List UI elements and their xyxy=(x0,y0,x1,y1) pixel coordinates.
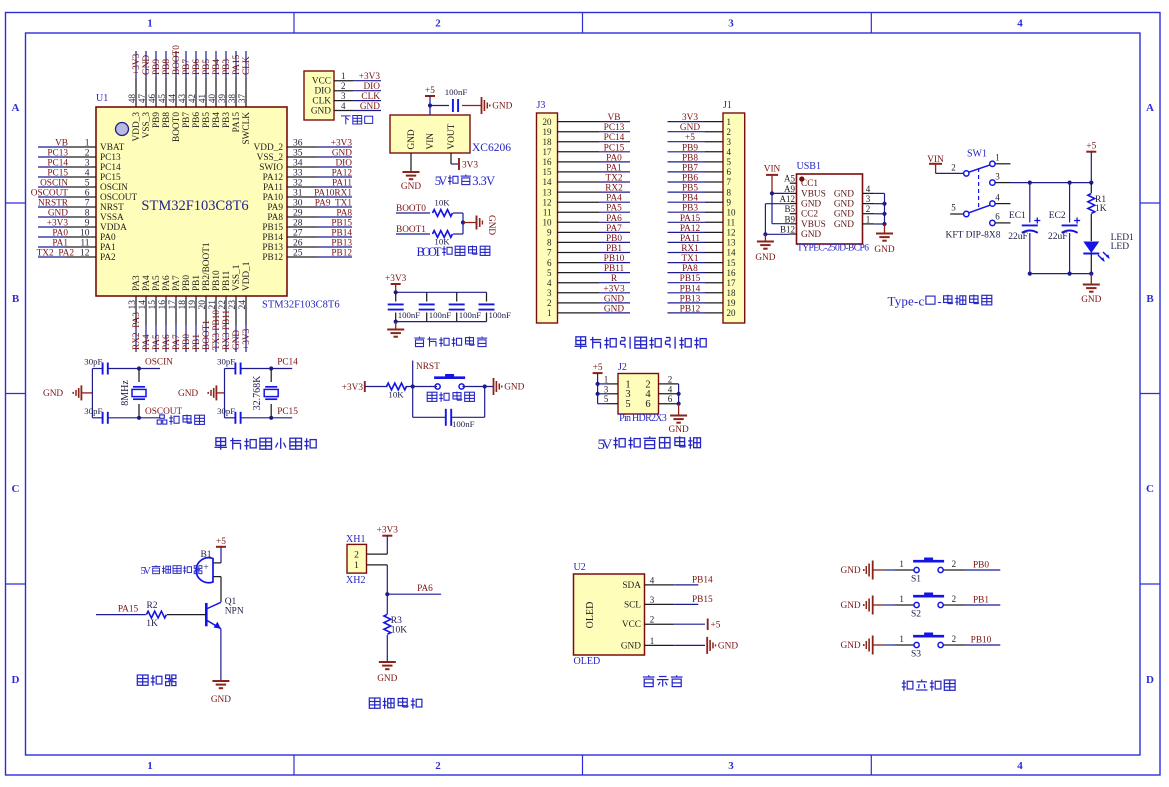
svg-text:DIO: DIO xyxy=(314,87,331,97)
svg-text:U1: U1 xyxy=(96,93,108,104)
svg-text:34: 34 xyxy=(293,159,303,169)
svg-text:GND: GND xyxy=(43,389,63,399)
svg-text:10K: 10K xyxy=(388,390,404,400)
svg-text:PA15: PA15 xyxy=(680,214,701,224)
svg-text:2: 2 xyxy=(341,81,346,91)
svg-text:VBUS: VBUS xyxy=(801,189,826,199)
svg-text:PA9 TX1: PA9 TX1 xyxy=(315,199,353,209)
svg-text:5: 5 xyxy=(604,394,609,404)
svg-text:3: 3 xyxy=(728,760,734,772)
svg-text:VIN: VIN xyxy=(426,133,436,150)
svg-text:PB4: PB4 xyxy=(212,112,222,128)
svg-text:2: 2 xyxy=(650,615,655,625)
svg-text:GND: GND xyxy=(377,674,397,684)
svg-text:30pF: 30pF xyxy=(84,406,102,416)
svg-text:PB3: PB3 xyxy=(222,59,232,75)
svg-text:PC15: PC15 xyxy=(100,173,121,183)
svg-text:PB11: PB11 xyxy=(604,264,625,274)
svg-text:GND: GND xyxy=(407,129,417,149)
svg-text:PA0: PA0 xyxy=(606,153,622,163)
svg-text:PB14: PB14 xyxy=(262,233,283,243)
svg-text:PC15: PC15 xyxy=(47,169,68,179)
svg-text:PB5: PB5 xyxy=(202,112,212,128)
svg-text:GND: GND xyxy=(486,215,496,235)
svg-text:1: 1 xyxy=(547,308,552,318)
svg-text:PB1: PB1 xyxy=(606,244,622,254)
svg-text:PB3: PB3 xyxy=(222,112,232,128)
svg-text:PB7: PB7 xyxy=(182,112,192,128)
svg-text:1: 1 xyxy=(899,634,904,644)
svg-text:PA1: PA1 xyxy=(100,243,116,253)
svg-text:GND: GND xyxy=(680,123,700,133)
svg-text:15: 15 xyxy=(727,258,737,268)
svg-text:PB6: PB6 xyxy=(192,59,202,75)
svg-text:PB6: PB6 xyxy=(192,112,202,128)
svg-text:PB9: PB9 xyxy=(682,143,698,153)
svg-text:4: 4 xyxy=(727,147,732,157)
svg-text:PB0: PB0 xyxy=(182,334,192,350)
svg-text:19: 19 xyxy=(188,300,198,310)
svg-text:14: 14 xyxy=(727,248,737,258)
svg-text:PB7: PB7 xyxy=(682,163,698,173)
svg-text:OLED: OLED xyxy=(574,656,601,667)
svg-text:PA6: PA6 xyxy=(417,584,433,594)
svg-text:SW1: SW1 xyxy=(967,149,987,160)
svg-text:PA6: PA6 xyxy=(162,334,172,350)
svg-text:+3V3: +3V3 xyxy=(603,284,625,294)
svg-text:PB9: PB9 xyxy=(152,59,162,75)
svg-text:3: 3 xyxy=(727,137,732,147)
svg-text:17: 17 xyxy=(543,147,553,157)
svg-text:VBUS: VBUS xyxy=(801,220,826,230)
svg-text:PA0: PA0 xyxy=(52,229,68,239)
svg-text:PA1: PA1 xyxy=(606,163,622,173)
svg-text:KFT DIP-8X8: KFT DIP-8X8 xyxy=(946,231,1001,241)
svg-text:PA5: PA5 xyxy=(606,204,622,214)
svg-text:GND: GND xyxy=(211,695,231,705)
svg-text:RX1: RX1 xyxy=(681,244,699,254)
svg-text:BOOT: BOOT xyxy=(417,245,442,259)
svg-text:S1: S1 xyxy=(911,575,921,585)
svg-text:PA10RX1: PA10RX1 xyxy=(314,189,352,199)
svg-text:VB: VB xyxy=(608,113,621,123)
svg-text:25: 25 xyxy=(293,249,303,259)
svg-text:1K: 1K xyxy=(1095,204,1107,214)
svg-text:22uF: 22uF xyxy=(1048,232,1068,242)
svg-text:GND: GND xyxy=(492,102,512,112)
svg-text:VSSA: VSSA xyxy=(100,213,124,223)
svg-text:PA12: PA12 xyxy=(332,169,353,179)
svg-text:100nF: 100nF xyxy=(489,310,512,320)
svg-text:+5: +5 xyxy=(685,133,695,143)
svg-text:D: D xyxy=(1146,674,1154,686)
svg-text:PA1: PA1 xyxy=(52,239,68,249)
svg-text:3: 3 xyxy=(728,18,734,30)
svg-text:VSS_1: VSS_1 xyxy=(232,264,242,291)
svg-text:5: 5 xyxy=(547,268,552,278)
svg-text:PA7: PA7 xyxy=(606,224,622,234)
svg-text:PB14: PB14 xyxy=(331,229,352,239)
svg-text:PB6: PB6 xyxy=(682,174,698,184)
svg-text:PB13: PB13 xyxy=(331,239,352,249)
svg-text:PB0: PB0 xyxy=(182,275,192,291)
svg-text:GND: GND xyxy=(834,200,854,210)
svg-text:33: 33 xyxy=(293,169,303,179)
svg-text:PB10: PB10 xyxy=(212,270,222,291)
svg-text:7: 7 xyxy=(85,199,90,209)
svg-text:12: 12 xyxy=(727,228,736,238)
svg-text:Type-c: Type-c xyxy=(888,294,925,309)
svg-text:CC2: CC2 xyxy=(801,210,818,220)
svg-text:PB12: PB12 xyxy=(262,253,283,263)
svg-text:OSCOUT: OSCOUT xyxy=(31,189,69,199)
svg-text:39: 39 xyxy=(217,94,227,104)
svg-text:9: 9 xyxy=(85,219,90,229)
svg-text:2: 2 xyxy=(354,551,359,561)
svg-text:31: 31 xyxy=(293,189,303,199)
svg-text:SWIO: SWIO xyxy=(259,163,283,173)
svg-text:PB8: PB8 xyxy=(162,59,172,75)
svg-text:DIO: DIO xyxy=(335,159,352,169)
svg-text:29: 29 xyxy=(293,209,303,219)
svg-text:D: D xyxy=(12,674,20,686)
svg-text:VCC: VCC xyxy=(312,77,331,87)
svg-text:PA10: PA10 xyxy=(263,193,284,203)
svg-text:22: 22 xyxy=(218,300,228,310)
svg-text:GND: GND xyxy=(834,220,854,230)
svg-text:41: 41 xyxy=(197,94,207,103)
svg-text:6: 6 xyxy=(85,189,90,199)
svg-text:PA5: PA5 xyxy=(152,334,162,350)
svg-text:+5: +5 xyxy=(216,537,226,547)
svg-text:EC2: EC2 xyxy=(1049,211,1066,221)
svg-text:SCL: SCL xyxy=(624,600,641,610)
svg-text:J3: J3 xyxy=(537,100,546,111)
svg-text:+: + xyxy=(203,562,208,572)
svg-text:2: 2 xyxy=(952,594,957,604)
svg-text:48: 48 xyxy=(127,94,137,104)
svg-text:PA5: PA5 xyxy=(152,275,162,291)
svg-text:VB: VB xyxy=(55,139,68,149)
svg-text:PB14: PB14 xyxy=(680,284,701,294)
svg-text:1: 1 xyxy=(899,594,904,604)
svg-text:PB12: PB12 xyxy=(331,249,352,259)
svg-text:+3V3: +3V3 xyxy=(242,328,252,350)
svg-text:PA7: PA7 xyxy=(172,275,182,291)
svg-text:27: 27 xyxy=(293,229,303,239)
svg-text:1: 1 xyxy=(899,559,904,569)
svg-text:GND: GND xyxy=(604,294,624,304)
svg-text:2: 2 xyxy=(668,374,673,384)
svg-text:5: 5 xyxy=(727,157,732,167)
svg-text:B9: B9 xyxy=(784,214,795,224)
svg-text:5: 5 xyxy=(951,203,956,213)
svg-text:VDD_2: VDD_2 xyxy=(254,143,284,153)
svg-text:PB15: PB15 xyxy=(692,595,713,605)
svg-text:4: 4 xyxy=(866,184,871,194)
svg-text:GND: GND xyxy=(801,230,821,240)
svg-text:PB8: PB8 xyxy=(682,153,698,163)
svg-text:17: 17 xyxy=(168,300,178,310)
svg-text:A5: A5 xyxy=(784,174,795,184)
svg-text:GND: GND xyxy=(311,107,331,117)
svg-text:B12: B12 xyxy=(780,225,795,235)
svg-text:PB15: PB15 xyxy=(680,274,701,284)
svg-text:GND: GND xyxy=(841,601,861,611)
svg-text:42: 42 xyxy=(187,94,197,103)
svg-text:OSCIN: OSCIN xyxy=(40,179,68,189)
svg-text:C: C xyxy=(12,483,20,495)
svg-text:PA6: PA6 xyxy=(162,275,172,291)
svg-text:+5: +5 xyxy=(593,363,603,373)
svg-text:17: 17 xyxy=(727,278,737,288)
svg-text:PA11: PA11 xyxy=(263,183,283,193)
svg-text:10: 10 xyxy=(727,207,737,217)
svg-text:10K: 10K xyxy=(391,626,408,636)
svg-text:VDD_1: VDD_1 xyxy=(242,261,252,291)
svg-text:PA4: PA4 xyxy=(142,334,152,350)
svg-text:100nF: 100nF xyxy=(445,87,468,97)
svg-text:36: 36 xyxy=(293,139,303,149)
svg-text:B: B xyxy=(1146,293,1154,305)
svg-text:SDA: SDA xyxy=(622,581,641,591)
svg-text:TX2: TX2 xyxy=(605,174,622,184)
svg-text:PA4: PA4 xyxy=(606,194,622,204)
svg-text:PA12: PA12 xyxy=(263,173,284,183)
svg-text:2: 2 xyxy=(727,127,732,137)
svg-text:2: 2 xyxy=(547,298,552,308)
svg-text:BOOT1: BOOT1 xyxy=(202,320,212,350)
svg-text:PB2/BOOT1: PB2/BOOT1 xyxy=(202,242,212,291)
svg-text:PB0: PB0 xyxy=(606,234,622,244)
svg-text:1: 1 xyxy=(147,18,153,30)
svg-text:U2: U2 xyxy=(574,562,586,573)
svg-text:3: 3 xyxy=(604,384,609,394)
svg-text:PA6: PA6 xyxy=(606,214,622,224)
svg-text:PB1: PB1 xyxy=(973,596,989,606)
svg-text:22uF: 22uF xyxy=(1008,232,1028,242)
svg-text:30pF: 30pF xyxy=(84,357,102,367)
svg-text:9: 9 xyxy=(727,197,732,207)
svg-text:PB15: PB15 xyxy=(262,223,283,233)
svg-text:GND: GND xyxy=(874,245,894,255)
svg-text:4: 4 xyxy=(668,384,673,394)
svg-text:OLED: OLED xyxy=(585,602,596,629)
svg-text:12: 12 xyxy=(543,197,552,207)
svg-text:PB12: PB12 xyxy=(680,304,701,314)
svg-text:VSS_3: VSS_3 xyxy=(142,112,152,139)
svg-text:PB15: PB15 xyxy=(331,219,352,229)
svg-text:PB8: PB8 xyxy=(162,112,172,128)
svg-text:CC1: CC1 xyxy=(801,179,818,189)
svg-text:GND: GND xyxy=(718,641,738,651)
svg-text:R3: R3 xyxy=(391,616,402,626)
svg-text:3V3: 3V3 xyxy=(682,113,698,123)
svg-text:GND: GND xyxy=(841,641,861,651)
svg-text:6: 6 xyxy=(668,394,673,404)
svg-text:A: A xyxy=(12,102,20,114)
svg-text:Pin HDR2X3: Pin HDR2X3 xyxy=(619,413,667,424)
svg-text:+3V3: +3V3 xyxy=(331,139,353,149)
svg-text:2: 2 xyxy=(952,634,957,644)
svg-text:STM32F103C8T6: STM32F103C8T6 xyxy=(141,198,248,214)
svg-text:GND: GND xyxy=(834,210,854,220)
svg-text:2: 2 xyxy=(951,163,956,173)
svg-text:6: 6 xyxy=(547,258,552,268)
svg-text:5V: 5V xyxy=(141,566,152,577)
svg-text:PA8: PA8 xyxy=(682,264,698,274)
svg-text:LED: LED xyxy=(1111,242,1130,252)
svg-text:32: 32 xyxy=(293,179,303,189)
svg-text:5: 5 xyxy=(625,399,630,410)
svg-text:PC14: PC14 xyxy=(100,163,121,173)
svg-text:+5: +5 xyxy=(1086,142,1096,152)
svg-text:19: 19 xyxy=(727,298,737,308)
svg-text:CLK: CLK xyxy=(312,97,331,107)
svg-text:2: 2 xyxy=(952,559,957,569)
svg-text:18: 18 xyxy=(178,300,188,310)
svg-text:13: 13 xyxy=(727,238,737,248)
svg-text:PB11: PB11 xyxy=(222,270,232,291)
svg-text:40: 40 xyxy=(207,94,217,104)
svg-text:PB14: PB14 xyxy=(692,575,713,585)
svg-text:12: 12 xyxy=(80,249,90,259)
svg-text:16: 16 xyxy=(158,300,168,310)
svg-text:15: 15 xyxy=(148,300,158,310)
svg-text:PA11: PA11 xyxy=(680,234,700,244)
svg-text:37: 37 xyxy=(237,94,247,104)
svg-text:10K: 10K xyxy=(434,198,450,208)
svg-text:BOOT0: BOOT0 xyxy=(172,45,182,75)
svg-text:Q1: Q1 xyxy=(225,597,237,607)
svg-text:7: 7 xyxy=(727,177,732,187)
svg-text:PA11: PA11 xyxy=(332,179,352,189)
svg-text:PB1: PB1 xyxy=(192,275,202,291)
svg-text:GND: GND xyxy=(48,209,68,219)
svg-text:100nF: 100nF xyxy=(429,310,452,320)
svg-text:VOUT: VOUT xyxy=(447,123,457,149)
svg-text:20: 20 xyxy=(198,300,208,310)
svg-text:PB3: PB3 xyxy=(682,204,698,214)
svg-text:PB4: PB4 xyxy=(682,194,698,204)
svg-text:GND: GND xyxy=(504,383,524,393)
svg-text:1: 1 xyxy=(650,636,655,646)
svg-text:PA7: PA7 xyxy=(172,334,182,350)
svg-text:GND: GND xyxy=(232,330,242,350)
svg-text:R2: R2 xyxy=(146,601,157,611)
svg-text:20: 20 xyxy=(727,308,737,318)
svg-text:4: 4 xyxy=(1017,760,1023,772)
svg-text:5V: 5V xyxy=(435,174,448,188)
svg-text:+3V3: +3V3 xyxy=(385,274,407,284)
svg-text:+3V3: +3V3 xyxy=(377,526,399,536)
svg-text:GND: GND xyxy=(841,566,861,576)
svg-text:PB13: PB13 xyxy=(262,243,283,253)
svg-text:8: 8 xyxy=(727,187,732,197)
svg-text:3: 3 xyxy=(866,194,871,204)
svg-text:1: 1 xyxy=(354,561,359,571)
svg-text:PB1: PB1 xyxy=(192,334,202,350)
svg-text:4: 4 xyxy=(650,575,655,585)
svg-text:9: 9 xyxy=(547,228,552,238)
svg-text:PA9: PA9 xyxy=(267,203,283,213)
svg-text:46: 46 xyxy=(147,94,157,104)
svg-text:1: 1 xyxy=(995,153,1000,163)
svg-text:RX2 PA3: RX2 PA3 xyxy=(132,312,142,350)
svg-text:100nF: 100nF xyxy=(452,419,475,429)
svg-text:GND: GND xyxy=(604,304,624,314)
svg-text:GND: GND xyxy=(142,55,152,75)
svg-text:1: 1 xyxy=(147,760,153,772)
svg-text:3: 3 xyxy=(650,595,655,605)
svg-text:PB4: PB4 xyxy=(212,59,222,75)
svg-text:+5: +5 xyxy=(711,621,721,631)
svg-text:DIO: DIO xyxy=(363,82,380,92)
svg-text:35: 35 xyxy=(293,149,303,159)
svg-text:3: 3 xyxy=(995,172,1000,182)
svg-text:14: 14 xyxy=(138,300,148,310)
svg-text:PC13: PC13 xyxy=(604,123,625,133)
svg-text:PA8: PA8 xyxy=(336,209,352,219)
svg-text:45: 45 xyxy=(157,94,167,104)
svg-text:3: 3 xyxy=(85,159,90,169)
svg-text:PA12: PA12 xyxy=(680,224,701,234)
svg-text:USB1: USB1 xyxy=(797,161,821,172)
svg-text:13: 13 xyxy=(128,300,138,310)
svg-text:38: 38 xyxy=(227,94,237,104)
svg-text:8MHz: 8MHz xyxy=(120,380,131,406)
svg-text:B: B xyxy=(12,293,20,305)
svg-text:PC14: PC14 xyxy=(604,133,625,143)
svg-text:NRSTR: NRSTR xyxy=(38,199,69,209)
svg-text:RX3 PB11: RX3 PB11 xyxy=(222,309,232,350)
svg-text:14: 14 xyxy=(543,177,553,187)
svg-text:1: 1 xyxy=(866,214,871,224)
svg-text:PC15: PC15 xyxy=(604,143,625,153)
svg-text:26: 26 xyxy=(293,239,303,249)
svg-text:GND: GND xyxy=(1081,295,1101,305)
svg-text:PB9: PB9 xyxy=(152,112,162,128)
svg-text:4: 4 xyxy=(547,278,552,288)
svg-text:100nF: 100nF xyxy=(459,310,482,320)
svg-text:+3V3: +3V3 xyxy=(132,53,142,75)
svg-text:-: - xyxy=(937,294,941,309)
svg-text:NPN: NPN xyxy=(225,607,244,617)
svg-text:PA8: PA8 xyxy=(267,213,283,223)
svg-text:5: 5 xyxy=(85,179,90,189)
svg-text:+5: +5 xyxy=(425,86,435,96)
svg-text:15: 15 xyxy=(543,167,553,177)
svg-text:S2: S2 xyxy=(911,610,921,620)
svg-text:1K: 1K xyxy=(146,619,158,629)
svg-text:PA4: PA4 xyxy=(142,275,152,291)
svg-text:RX2: RX2 xyxy=(605,184,623,194)
svg-text:OSCOUT: OSCOUT xyxy=(100,193,138,203)
svg-text:GND: GND xyxy=(178,389,198,399)
svg-text:CLK: CLK xyxy=(361,92,380,102)
svg-text:+3V3: +3V3 xyxy=(47,219,69,229)
svg-text:GND: GND xyxy=(360,102,380,112)
svg-text:30pF: 30pF xyxy=(217,406,235,416)
svg-text:PC15: PC15 xyxy=(277,407,298,417)
svg-text:PB5: PB5 xyxy=(682,184,698,194)
svg-text:2: 2 xyxy=(435,18,441,30)
svg-text:PB10: PB10 xyxy=(971,636,992,646)
svg-text:PB13: PB13 xyxy=(680,294,701,304)
svg-text:4: 4 xyxy=(85,169,90,179)
svg-text:16: 16 xyxy=(727,268,737,278)
svg-text:VDD_3: VDD_3 xyxy=(132,112,142,142)
